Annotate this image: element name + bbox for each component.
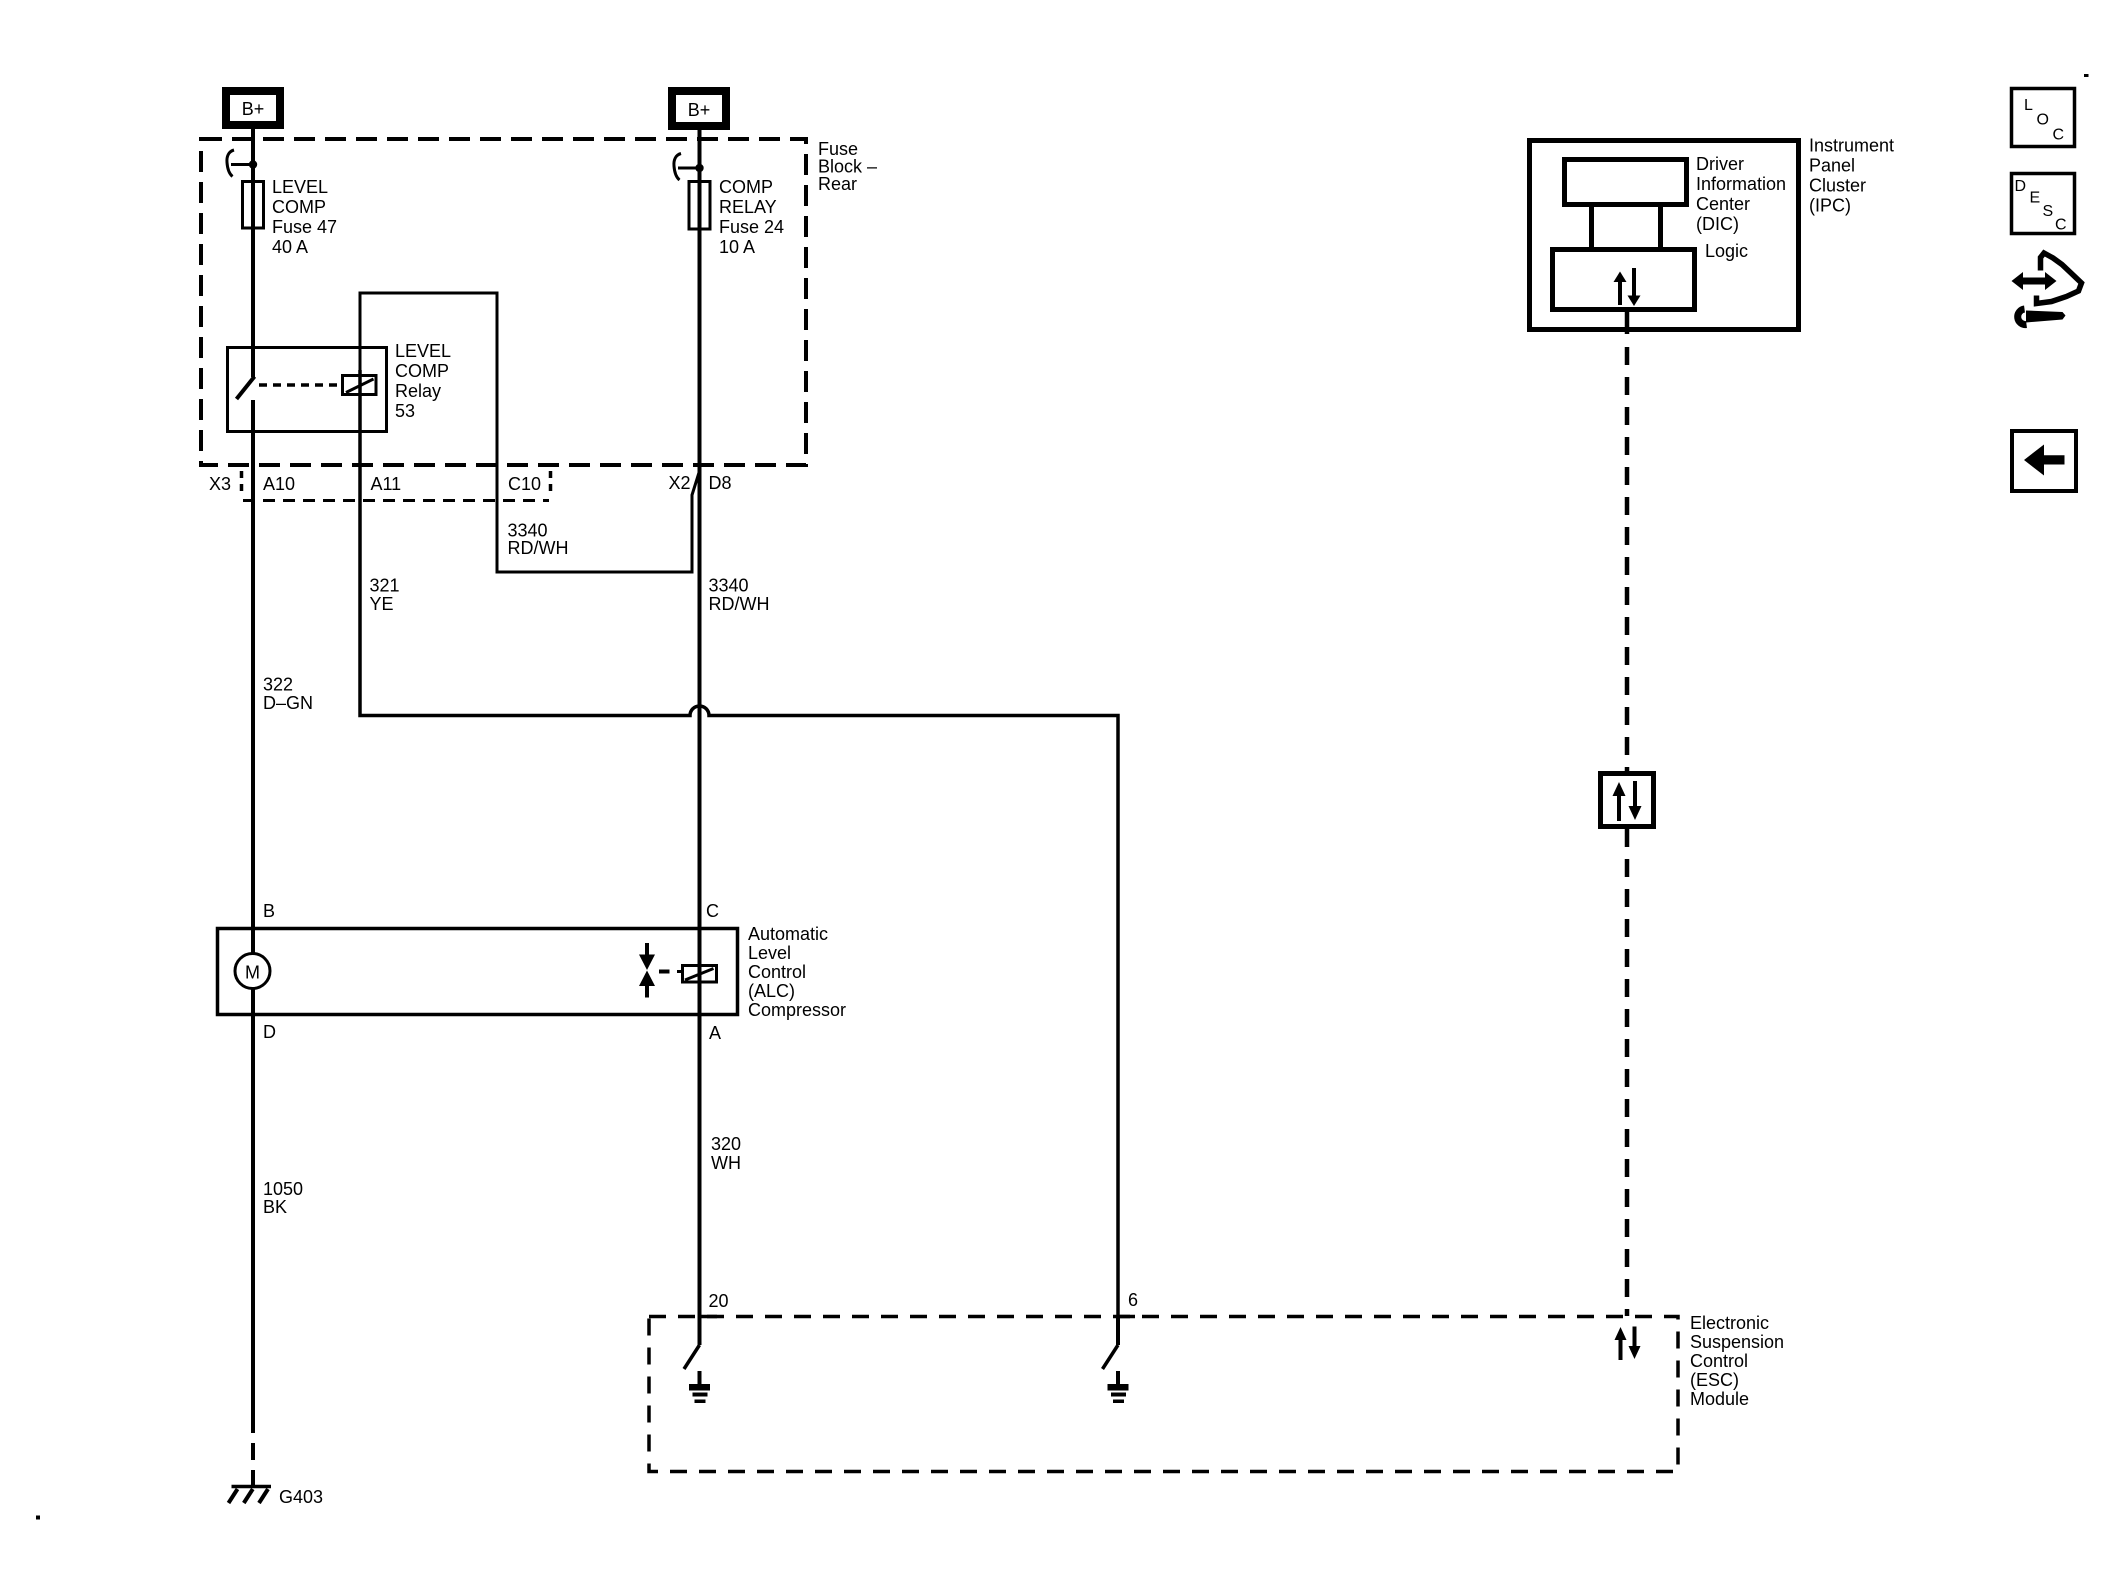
IPC: Instrument Panel Cluster box	[1530, 141, 1799, 330]
relay LEVEL COMP Relay 53 (box)	[228, 348, 387, 432]
svg-text:Instrument: Instrument	[1809, 136, 1894, 156]
ground G403	[229, 1487, 324, 1508]
svg-text:Logic: Logic	[1705, 241, 1748, 261]
svg-text:(ESC): (ESC)	[1690, 1370, 1739, 1390]
label Electronic Suspension Control (ESC) Module	[1690, 1313, 1784, 1409]
svg-text:Control: Control	[1690, 1351, 1748, 1371]
svg-text:S: S	[2043, 203, 2054, 220]
motor M	[235, 954, 270, 989]
svg-text:LEVEL: LEVEL	[272, 177, 328, 197]
svg-text:BK: BK	[263, 1197, 287, 1217]
svg-text:Level: Level	[748, 943, 791, 963]
svg-text:Information: Information	[1696, 174, 1786, 194]
current tap at fuse 24	[674, 154, 704, 181]
svg-text:Rear: Rear	[818, 174, 857, 194]
label Fuse Block - Rear	[818, 139, 877, 194]
svg-text:G403: G403	[279, 1487, 323, 1507]
svg-text:D: D	[2015, 178, 2027, 195]
ALC solenoid coil	[683, 966, 717, 983]
svg-text:C: C	[706, 901, 719, 921]
svg-text:Control: Control	[748, 962, 806, 982]
DIC to logic connecting legs	[1589, 207, 1594, 248]
svg-text:Fuse 24: Fuse 24	[719, 217, 784, 237]
ALC solenoid valve (arrows)	[639, 943, 655, 998]
fuse LEVEL COMP Fuse 47 40A	[243, 182, 264, 229]
serial data dashed line arrow box to ESC	[1625, 829, 1630, 1316]
wire label 322 D-GN	[263, 675, 313, 714]
svg-text:1050: 1050	[263, 1179, 303, 1199]
svg-text:Module: Module	[1690, 1389, 1749, 1409]
svg-text:320: 320	[711, 1134, 741, 1154]
label Driver Information Center (DIC)	[1696, 154, 1786, 234]
fuse block - rear (dashed enclosure)	[201, 139, 806, 465]
svg-text:Cluster: Cluster	[1809, 176, 1866, 196]
stray mark top right	[2084, 74, 2089, 77]
svg-text:322: 322	[263, 675, 293, 695]
svg-text:C: C	[2053, 127, 2065, 144]
svg-text:Driver: Driver	[1696, 154, 1744, 174]
connector separator right of C10	[549, 471, 553, 497]
svg-text:D8: D8	[709, 473, 732, 493]
svg-text:O: O	[2037, 112, 2049, 129]
svg-text:Fuse 47: Fuse 47	[272, 217, 337, 237]
ESC serial data arrows (inside box top)	[1615, 1327, 1641, 1361]
svg-text:3340: 3340	[709, 576, 749, 596]
svg-text:C: C	[2055, 217, 2067, 234]
svg-text:Automatic: Automatic	[748, 924, 828, 944]
wire label 320 WH	[711, 1134, 741, 1173]
logic box	[1553, 250, 1695, 310]
svg-text:D–GN: D–GN	[263, 693, 313, 713]
fuse COMP RELAY Fuse 24 10A	[689, 182, 710, 230]
wire relay coil upper path to C10 branch	[360, 293, 700, 572]
svg-text:Center: Center	[1696, 194, 1750, 214]
wire label 3340 RD/WH (C10 branch)	[508, 521, 569, 559]
power node B+ (left)	[226, 91, 280, 125]
wire label 3340 RD/WH (main)	[709, 576, 770, 615]
label Automatic Level Control (ALC) Compressor	[748, 924, 846, 1020]
svg-text:COMP: COMP	[272, 197, 326, 217]
relay actuation dashed link	[259, 383, 338, 387]
back arrow box	[2012, 431, 2076, 491]
svg-text:COMP: COMP	[395, 361, 449, 381]
connector row: bottom dashed line	[243, 499, 549, 502]
svg-text:Suspension: Suspension	[1690, 1332, 1784, 1352]
svg-text:D: D	[263, 1022, 276, 1042]
wire from B+ left down through fuse 47 to relay	[251, 129, 255, 377]
IPC output stub	[1625, 312, 1630, 334]
svg-text:10 A: 10 A	[719, 237, 755, 257]
serial data arrow box	[1601, 774, 1654, 827]
svg-text:X3: X3	[209, 474, 231, 494]
ESC internal switch to ground (pin 6)	[1103, 1316, 1119, 1369]
svg-text:40 A: 40 A	[272, 237, 308, 257]
label Instrument Panel Cluster (IPC)	[1809, 136, 1894, 216]
stray mark bottom left	[36, 1516, 40, 1520]
service/diagnostic icon (arrows + wrench)	[2012, 253, 2082, 325]
relay switch contact	[237, 377, 255, 400]
svg-text:53: 53	[395, 401, 415, 421]
valve dashed link	[659, 970, 670, 974]
wire 322/1050 BK below ALC pin D (dashed tail)	[251, 1416, 255, 1486]
wire from B+ right down through fuse 24 to ALC pin C	[698, 130, 702, 1316]
serial data dashed line IPC to arrow box	[1625, 347, 1630, 771]
svg-text:(DIC): (DIC)	[1696, 214, 1739, 234]
svg-text:M: M	[245, 963, 260, 983]
relay coil	[343, 376, 377, 395]
ESC pin 6	[1118, 1290, 1138, 1317]
ground (ESC pin 6)	[1108, 1371, 1129, 1403]
svg-text:RELAY: RELAY	[719, 197, 777, 217]
svg-text:E: E	[2030, 190, 2041, 207]
svg-text:Compressor: Compressor	[748, 1000, 846, 1020]
ESC module dashed box	[649, 1317, 1678, 1472]
svg-text:Electronic: Electronic	[1690, 1313, 1769, 1333]
current tap at fuse 47	[227, 150, 257, 177]
svg-text:X2: X2	[669, 473, 691, 493]
svg-text:Relay: Relay	[395, 381, 441, 401]
DIC display box	[1565, 160, 1687, 205]
svg-text:A10: A10	[263, 474, 295, 494]
svg-text:WH: WH	[711, 1153, 741, 1173]
svg-text:20: 20	[709, 1291, 729, 1311]
svg-text:(ALC): (ALC)	[748, 981, 795, 1001]
svg-text:6: 6	[1128, 1290, 1138, 1310]
connector separator left of A10	[240, 471, 244, 497]
logic box arrows	[1614, 268, 1641, 306]
wire relay switch output (322 net upper)	[251, 400, 255, 1416]
svg-text:A: A	[709, 1023, 721, 1043]
svg-text:(IPC): (IPC)	[1809, 196, 1851, 216]
svg-text:YE: YE	[370, 594, 394, 614]
svg-text:COMP: COMP	[719, 177, 773, 197]
svg-text:B+: B+	[242, 99, 265, 119]
svg-text:L: L	[2024, 97, 2033, 114]
svg-text:A11: A11	[371, 474, 402, 494]
wire relay coil A11 net: down, right, to ESC pin 6 (hop over vertical wire)	[360, 370, 1118, 1316]
svg-text:RD/WH: RD/WH	[508, 538, 569, 558]
wire label 321 YE	[370, 576, 400, 615]
ground (ESC pin 20)	[689, 1371, 710, 1403]
wire label 1050 BK	[263, 1179, 303, 1217]
svg-text:B+: B+	[688, 100, 711, 120]
power node B+ (right)	[672, 91, 726, 126]
LOC reference box	[2012, 89, 2075, 147]
svg-text:B: B	[263, 901, 275, 921]
DESC reference box	[2012, 174, 2075, 234]
svg-text:Panel: Panel	[1809, 156, 1855, 176]
ALC compressor box	[218, 929, 738, 1015]
svg-text:321: 321	[370, 576, 400, 596]
svg-text:C10: C10	[508, 474, 541, 494]
svg-text:RD/WH: RD/WH	[709, 594, 770, 614]
ESC pin 20	[700, 1291, 729, 1317]
ESC internal switch to ground (pin 20)	[684, 1316, 700, 1369]
svg-text:LEVEL: LEVEL	[395, 341, 451, 361]
